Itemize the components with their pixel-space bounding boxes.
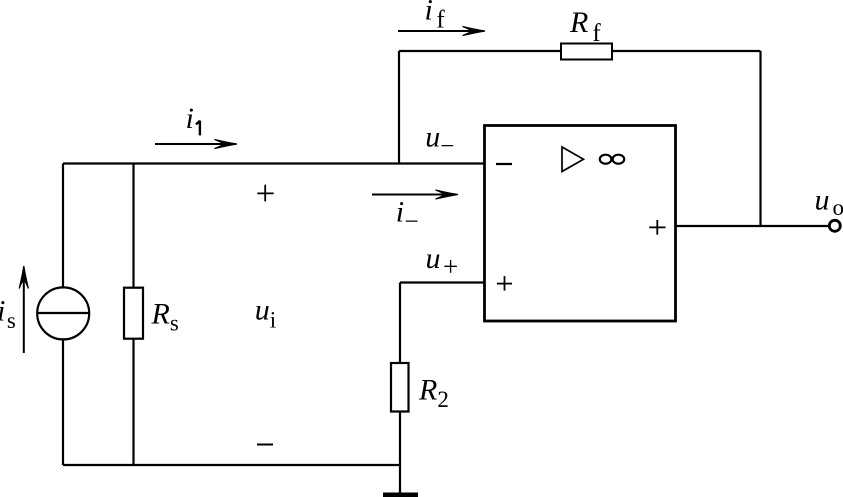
op-amp U1: [485, 126, 676, 322]
wire bottom horizontal: [63, 464, 401, 466]
svg-text:u+: u+: [426, 242, 459, 282]
svg-text:uo: uo: [815, 183, 843, 220]
arrow i1: [155, 139, 237, 148]
op-amp output plus sign: [649, 220, 665, 235]
op-amp infinity symbol: [600, 155, 624, 164]
svg-text:if: if: [425, 0, 446, 34]
op-amp plus input sign: [497, 276, 512, 291]
current source is: [37, 287, 89, 339]
label ui plus: [257, 185, 273, 202]
op-amp minus input sign: [496, 163, 512, 165]
op-amp triangle symbol: [562, 147, 584, 172]
wire main horizontal: [63, 162, 485, 164]
output terminal uo: [829, 220, 840, 231]
arrow i-: [372, 190, 458, 199]
label ui minus: [257, 444, 273, 446]
wire Rs branch vertical: [132, 164, 134, 466]
svg-text:u−: u−: [425, 121, 454, 160]
svg-text:R2: R2: [418, 373, 449, 412]
svg-text:Rf: Rf: [569, 6, 601, 47]
svg-text:i−: i−: [396, 196, 419, 236]
wire feedback left vertical: [398, 51, 400, 165]
wire feedback right vertical: [759, 51, 761, 227]
wire left vertical: [62, 164, 64, 466]
resistor R2: [391, 363, 409, 412]
svg-text:is: is: [0, 294, 16, 333]
wire u+ horizontal: [400, 281, 485, 283]
ground: [383, 493, 418, 497]
svg-text:ui: ui: [255, 293, 276, 332]
wire top feedback: [399, 50, 761, 52]
wire R2 branch vertical: [399, 283, 401, 493]
arrow if: [398, 26, 485, 35]
arrow is: [19, 266, 28, 353]
svg-text:i: i: [186, 102, 194, 135]
resistor Rf: [561, 44, 612, 60]
resistor Rs: [124, 288, 143, 339]
wire output horizontal: [676, 225, 829, 227]
svg-text:Rs: Rs: [151, 297, 179, 335]
